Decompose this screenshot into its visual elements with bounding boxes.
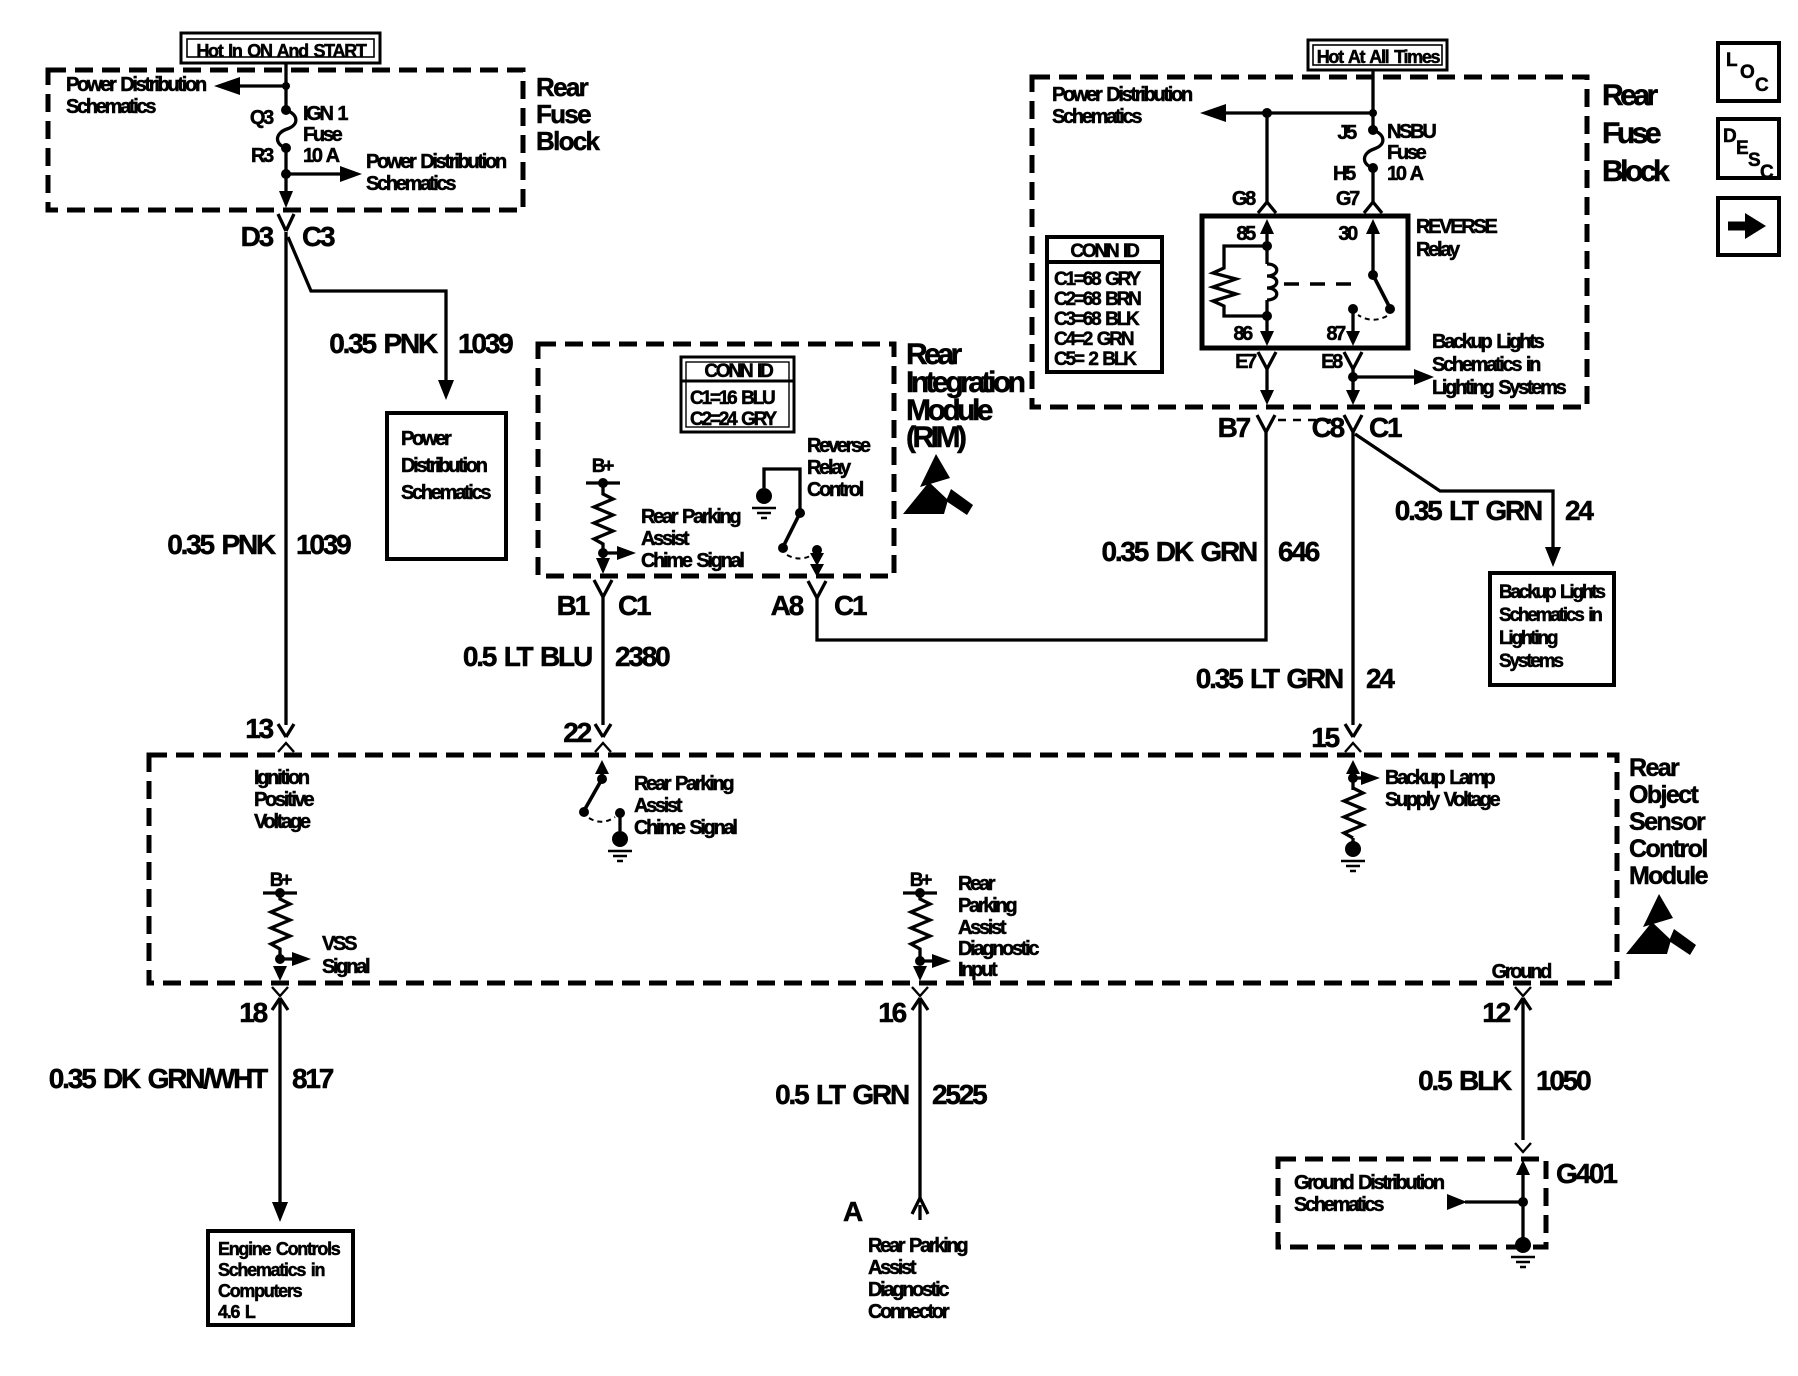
resistor VSS [271,893,290,961]
svg-text:H5: H5 [1333,163,1356,185]
connector G8 (female) [1258,202,1276,213]
ESD symbol (module) [1626,894,1696,955]
svg-text:1039: 1039 [458,328,513,359]
wire from Hot In ON And START down [284,62,287,110]
svg-text:B+: B+ [592,456,615,477]
svg-text:J5: J5 [1337,122,1357,144]
svg-text:12: 12 [1482,997,1510,1028]
wire pin 16 to diagnostic connector [918,998,921,1198]
ground (backup lamp) [1341,838,1365,871]
svg-text:Rear Parking: Rear Parking [641,506,740,528]
svg-text:Power: Power [401,428,452,450]
svg-text:Schematics in: Schematics in [1499,605,1602,626]
wire C1 connector link (dashed) [1278,419,1340,421]
fuse IGN 1 10A [277,105,295,153]
wire C3 branch to Power Distribution Schematics box [288,237,454,400]
wire exit arrow at fuse box bottom [279,191,293,208]
svg-text:Backup Lights: Backup Lights [1432,331,1545,353]
switch reverse relay control [764,469,822,559]
resistor diagnostic input [911,893,930,961]
pin 87 [1326,309,1360,346]
rear object sensor control module dashed box [149,755,1617,983]
svg-text:1050: 1050 [1536,1065,1591,1096]
svg-text:Engine Controls: Engine Controls [218,1239,341,1259]
wire coil link (dashed) [1284,282,1360,285]
svg-text:0.35 LT GRN: 0.35 LT GRN [1395,495,1542,526]
wire A8 exit arrows [810,550,824,577]
svg-text:Object: Object [1629,781,1699,809]
svg-text:Assist: Assist [634,795,683,817]
node Ground Distribution Schematics [1294,1172,1444,1216]
svg-text:Schematics in: Schematics in [218,1260,324,1280]
connector B7 [1218,412,1275,443]
svg-text:Schematics: Schematics [366,173,456,195]
svg-text:18: 18 [239,997,267,1028]
node Power Distribution Schematics (left feed) [66,74,206,118]
connector E8 [1321,351,1362,373]
svg-text:Assist: Assist [868,1257,917,1279]
svg-text:O: O [1740,62,1754,83]
svg-text:Assist: Assist [958,917,1007,939]
svg-text:C3=68 BLK: C3=68 BLK [1054,309,1140,330]
svg-text:Relay: Relay [807,457,852,479]
connector pin 13 [245,713,294,752]
svg-text:Assist: Assist [641,528,690,550]
svg-text:817: 817 [292,1063,334,1094]
connector pin 16 [878,987,928,1028]
connector C8/C1 [1312,412,1402,443]
svg-text:2525: 2525 [932,1079,987,1110]
svg-text:C2=68 BRN: C2=68 BRN [1054,289,1141,310]
svg-text:VSS: VSS [322,933,357,955]
svg-text:Distribution: Distribution [401,455,487,477]
svg-text:Fuse: Fuse [1602,117,1661,150]
label 0.35 PNK 1039 (left wire) [167,529,351,560]
svg-text:CONN ID: CONN ID [704,361,773,382]
svg-text:C8: C8 [1312,412,1345,443]
ESD symbol (RIM) [903,454,973,515]
svg-text:0.35 DK GRN: 0.35 DK GRN [1101,536,1256,567]
node B+ (diagnostic input) [903,870,937,898]
svg-text:Chime Signal: Chime Signal [641,550,744,572]
wire pin 18 to engine controls [272,998,288,1222]
svg-text:C1=16 BLU: C1=16 BLU [690,388,775,409]
svg-text:Q3: Q3 [250,107,274,129]
wire A8 to B7 (0.35 DK GRN 646) [817,432,1266,640]
label Rear Object Sensor Control Module [1629,754,1709,890]
svg-text:Hot In ON And START: Hot In ON And START [196,41,367,61]
wire Hot At All Times down [1371,69,1374,130]
node Backup Lights Schematics box [1490,573,1614,685]
svg-text:0.35 PNK: 0.35 PNK [167,529,276,560]
connector E7 [1235,351,1276,373]
svg-text:Power Distribution: Power Distribution [66,74,206,96]
svg-text:D3: D3 [241,221,274,252]
connector pin 15 [1311,722,1361,753]
label 0.5 BLK 1050 [1418,1065,1591,1096]
svg-text:E: E [1736,138,1748,159]
connector A8/C1 [771,581,867,621]
svg-text:Relay: Relay [1416,239,1461,261]
svg-text:B+: B+ [270,870,293,891]
rear integration module dashed box [538,344,894,576]
svg-text:Control: Control [807,479,864,501]
svg-text:Backup Lamp: Backup Lamp [1385,767,1495,789]
node chime signal arrow [598,506,744,572]
connector pin 22 [563,717,611,752]
node B+ (VSS) [263,870,297,898]
svg-text:4.6 L: 4.6 L [218,1302,256,1322]
label 0.35 LT GRN 24 (pin15 wire) [1196,663,1396,694]
wire C8 to pin 15 [1351,432,1354,725]
coil (relay) [1267,246,1277,316]
label Rear Integration Module (RIM) [906,338,1025,454]
svg-text:C1=68 GRY: C1=68 GRY [1054,269,1141,290]
node Power Distribution Schematics box [387,413,506,559]
svg-text:16: 16 [878,997,906,1028]
svg-text:Supply Voltage: Supply Voltage [1385,789,1500,811]
ground G401 dashed box [1278,1159,1546,1247]
svg-text:NSBU: NSBU [1387,121,1436,143]
wire D3 to pin 13 [284,232,287,725]
svg-text:24: 24 [1565,495,1594,526]
svg-text:Rear Parking: Rear Parking [634,773,733,795]
node VSS signal arrow [275,933,370,978]
svg-text:E7: E7 [1235,351,1257,373]
svg-text:85: 85 [1236,223,1256,245]
label Rear Parking Assist Diagnostic Connector [868,1235,967,1323]
svg-text:R3: R3 [251,145,274,167]
pin 85 [1236,219,1274,251]
wire C1 to backup lights box [1355,434,1561,567]
svg-text:Ground: Ground [1492,961,1551,983]
svg-text:0.5 LT GRN: 0.5 LT GRN [775,1079,909,1110]
node Hot At All Times [1308,40,1447,70]
label Reverse Relay Control [807,435,871,501]
pin 30 [1338,219,1380,275]
svg-text:87: 87 [1326,323,1346,345]
value NSBU Fuse 10 A [1387,121,1436,185]
connector pin 18 [239,987,288,1028]
svg-text:G7: G7 [1336,188,1360,210]
svg-text:C3: C3 [302,221,335,252]
label Rear Fuse Block (right) [1602,79,1670,188]
connector A (diagnostic) [843,1196,928,1227]
node B+ (RIM) [586,456,620,488]
node diagnostic input arrow [915,873,1039,981]
svg-text:REVERSE: REVERSE [1416,216,1497,238]
svg-text:Positive: Positive [254,789,314,811]
svg-text:Voltage: Voltage [254,811,311,833]
node backup lamp supply voltage arrow [1346,760,1500,811]
svg-text:Reverse: Reverse [807,435,871,457]
node Power Distribution Schematics (right box feed) [1052,84,1192,128]
svg-text:Schematics: Schematics [401,482,491,504]
connector B1/C1 [557,580,651,621]
svg-text:(RIM): (RIM) [906,421,966,454]
wire B1 to pin 22 [601,597,604,725]
label 0.35 DK GRN 646 [1101,536,1319,567]
svg-text:Diagnostic: Diagnostic [958,938,1039,960]
connector G401 entry [1515,1143,1531,1238]
label Rear Parking Assist Chime Signal (module) [634,773,737,839]
node Ignition Positive Voltage [254,767,314,833]
wire ground distribution feed arrow [1447,1194,1528,1210]
node Hot In ON And START [181,33,380,63]
connector pin 12 [1482,987,1531,1028]
svg-text:Schematics: Schematics [66,96,156,118]
svg-text:Fuse: Fuse [303,124,343,146]
label 0.35 DK GRN/WHT 817 [49,1063,334,1094]
svg-text:Rear Parking: Rear Parking [868,1235,967,1257]
svg-text:2380: 2380 [615,641,670,672]
switch rear parking assist chime signal [579,760,625,822]
svg-text:CONN ID: CONN ID [1070,241,1139,262]
svg-text:E8: E8 [1321,351,1343,373]
svg-text:C1: C1 [834,590,867,621]
node CONN ID table (RIM) [681,357,794,432]
svg-text:Lighting Systems: Lighting Systems [1432,377,1567,399]
svg-text:Fuse: Fuse [536,99,591,129]
svg-text:0.35 PNK: 0.35 PNK [329,328,438,359]
svg-text:Rear: Rear [536,72,589,102]
label 0.5 LT GRN 2525 [775,1079,987,1110]
svg-text:Input: Input [958,959,998,981]
svg-text:1039: 1039 [296,529,351,560]
svg-text:Rear: Rear [1602,79,1659,112]
svg-text:G401: G401 [1556,1158,1617,1189]
svg-text:Hot At All Times: Hot At All Times [1317,47,1441,67]
rear fuse block (right) dashed box [1032,77,1587,407]
wire left feed with arrow [214,77,290,95]
svg-text:30: 30 [1338,223,1358,245]
svg-text:C1: C1 [1369,412,1402,443]
svg-text:Signal: Signal [322,956,370,978]
wire feed left with arrow [1200,104,1377,122]
svg-text:0.5 BLK: 0.5 BLK [1418,1065,1512,1096]
node CONN ID table (rear fuse block) [1047,237,1162,372]
svg-text:Systems: Systems [1499,651,1563,672]
fuse NSBU 10A [1364,125,1382,202]
svg-text:Control: Control [1629,835,1707,863]
svg-text:10 A: 10 A [1387,163,1424,185]
wire fuse to junction [284,148,287,196]
svg-text:Schematics: Schematics [1294,1194,1384,1216]
connector G7 (female) [1364,202,1382,213]
svg-text:Backup Lights: Backup Lights [1499,582,1605,603]
wire pin 18 exit arrow [273,966,287,981]
ground G401 symbol [1511,1237,1535,1267]
svg-text:646: 646 [1278,536,1320,567]
svg-text:B7: B7 [1218,412,1251,443]
svg-text:0.35 DK GRN/WHT: 0.35 DK GRN/WHT [49,1063,268,1094]
resistor backup lamp [1344,788,1363,838]
svg-text:24: 24 [1366,663,1395,694]
svg-text:Lighting: Lighting [1499,628,1558,649]
svg-text:Ground Distribution: Ground Distribution [1294,1172,1444,1194]
svg-text:Rear: Rear [1629,754,1680,782]
svg-text:Ignition: Ignition [254,767,309,789]
icon DESC [1718,119,1779,183]
wire E8 to border [1346,369,1360,405]
svg-text:S: S [1748,150,1760,171]
label Rear Fuse Block (left) [536,72,601,156]
svg-text:D: D [1723,126,1736,147]
ground (reverse relay control) [752,488,776,518]
svg-text:22: 22 [563,717,591,748]
node junction to Power Distribution Schematics (right) [281,151,506,195]
svg-text:Chime Signal: Chime Signal [634,817,737,839]
icon LOC [1718,43,1779,101]
label REVERSE Relay [1416,216,1497,261]
svg-text:C4=2 GRN: C4=2 GRN [1054,329,1134,350]
wire E7 to border [1260,369,1274,405]
svg-text:10 A: 10 A [303,145,340,167]
svg-text:0.35 LT GRN: 0.35 LT GRN [1196,663,1343,694]
resistor (relay) [1213,246,1267,316]
svg-text:Schematics in: Schematics in [1432,354,1540,376]
label 0.35 PNK 1039 (branch) [329,328,513,359]
node Engine Controls Schematics box [208,1231,353,1325]
svg-text:15: 15 [1311,722,1339,753]
label 0.35 LT GRN 24 (backup lights wire) [1395,495,1595,526]
svg-text:B1: B1 [557,590,590,621]
svg-text:A: A [843,1196,863,1227]
svg-text:Sensor: Sensor [1629,808,1706,836]
node backup lights feed arrow [1348,331,1567,399]
svg-text:Computers: Computers [218,1281,303,1301]
svg-text:Block: Block [536,126,601,156]
svg-text:A8: A8 [771,590,804,621]
svg-text:86: 86 [1233,323,1253,345]
node G8 branch junction [1262,108,1272,202]
svg-text:13: 13 [245,713,273,744]
svg-text:Power Distribution: Power Distribution [1052,84,1192,106]
rear fuse block (left) dashed box [48,70,523,210]
icon next arrow [1718,198,1779,255]
svg-text:Connector: Connector [868,1301,950,1323]
wire pin 16 exit arrow [913,966,927,981]
svg-text:Schematics: Schematics [1052,106,1142,128]
svg-text:C2=24 GRY: C2=24 GRY [690,409,777,430]
svg-text:Module: Module [1629,862,1709,890]
svg-text:Block: Block [1602,155,1670,188]
ground (chime signal) [608,813,632,861]
svg-text:Fuse: Fuse [1387,142,1427,164]
connector D3/C3 [241,214,335,252]
resistor rear parking assist chime signal [594,483,613,566]
switch (relay) [1348,270,1395,320]
svg-text:C1: C1 [618,590,651,621]
wire B1 exit arrow [596,558,610,574]
label 0.5 LT BLU 2380 [463,641,670,672]
wire pin 12 to G401 [1521,998,1524,1140]
svg-text:B+: B+ [910,870,933,891]
value IGN 1 Fuse 10 A [303,103,348,167]
svg-text:Rear: Rear [958,873,996,895]
svg-text:Parking: Parking [958,895,1016,917]
svg-text:Power Distribution: Power Distribution [366,151,506,173]
svg-text:IGN 1: IGN 1 [303,103,348,125]
svg-text:0.5 LT BLU: 0.5 LT BLU [463,641,592,672]
svg-text:C5= 2 BLK: C5= 2 BLK [1054,349,1137,370]
relay REVERSE box [1202,216,1408,348]
svg-text:Diagnostic: Diagnostic [868,1279,949,1301]
pin 86 [1233,311,1274,346]
svg-text:G8: G8 [1232,188,1256,210]
